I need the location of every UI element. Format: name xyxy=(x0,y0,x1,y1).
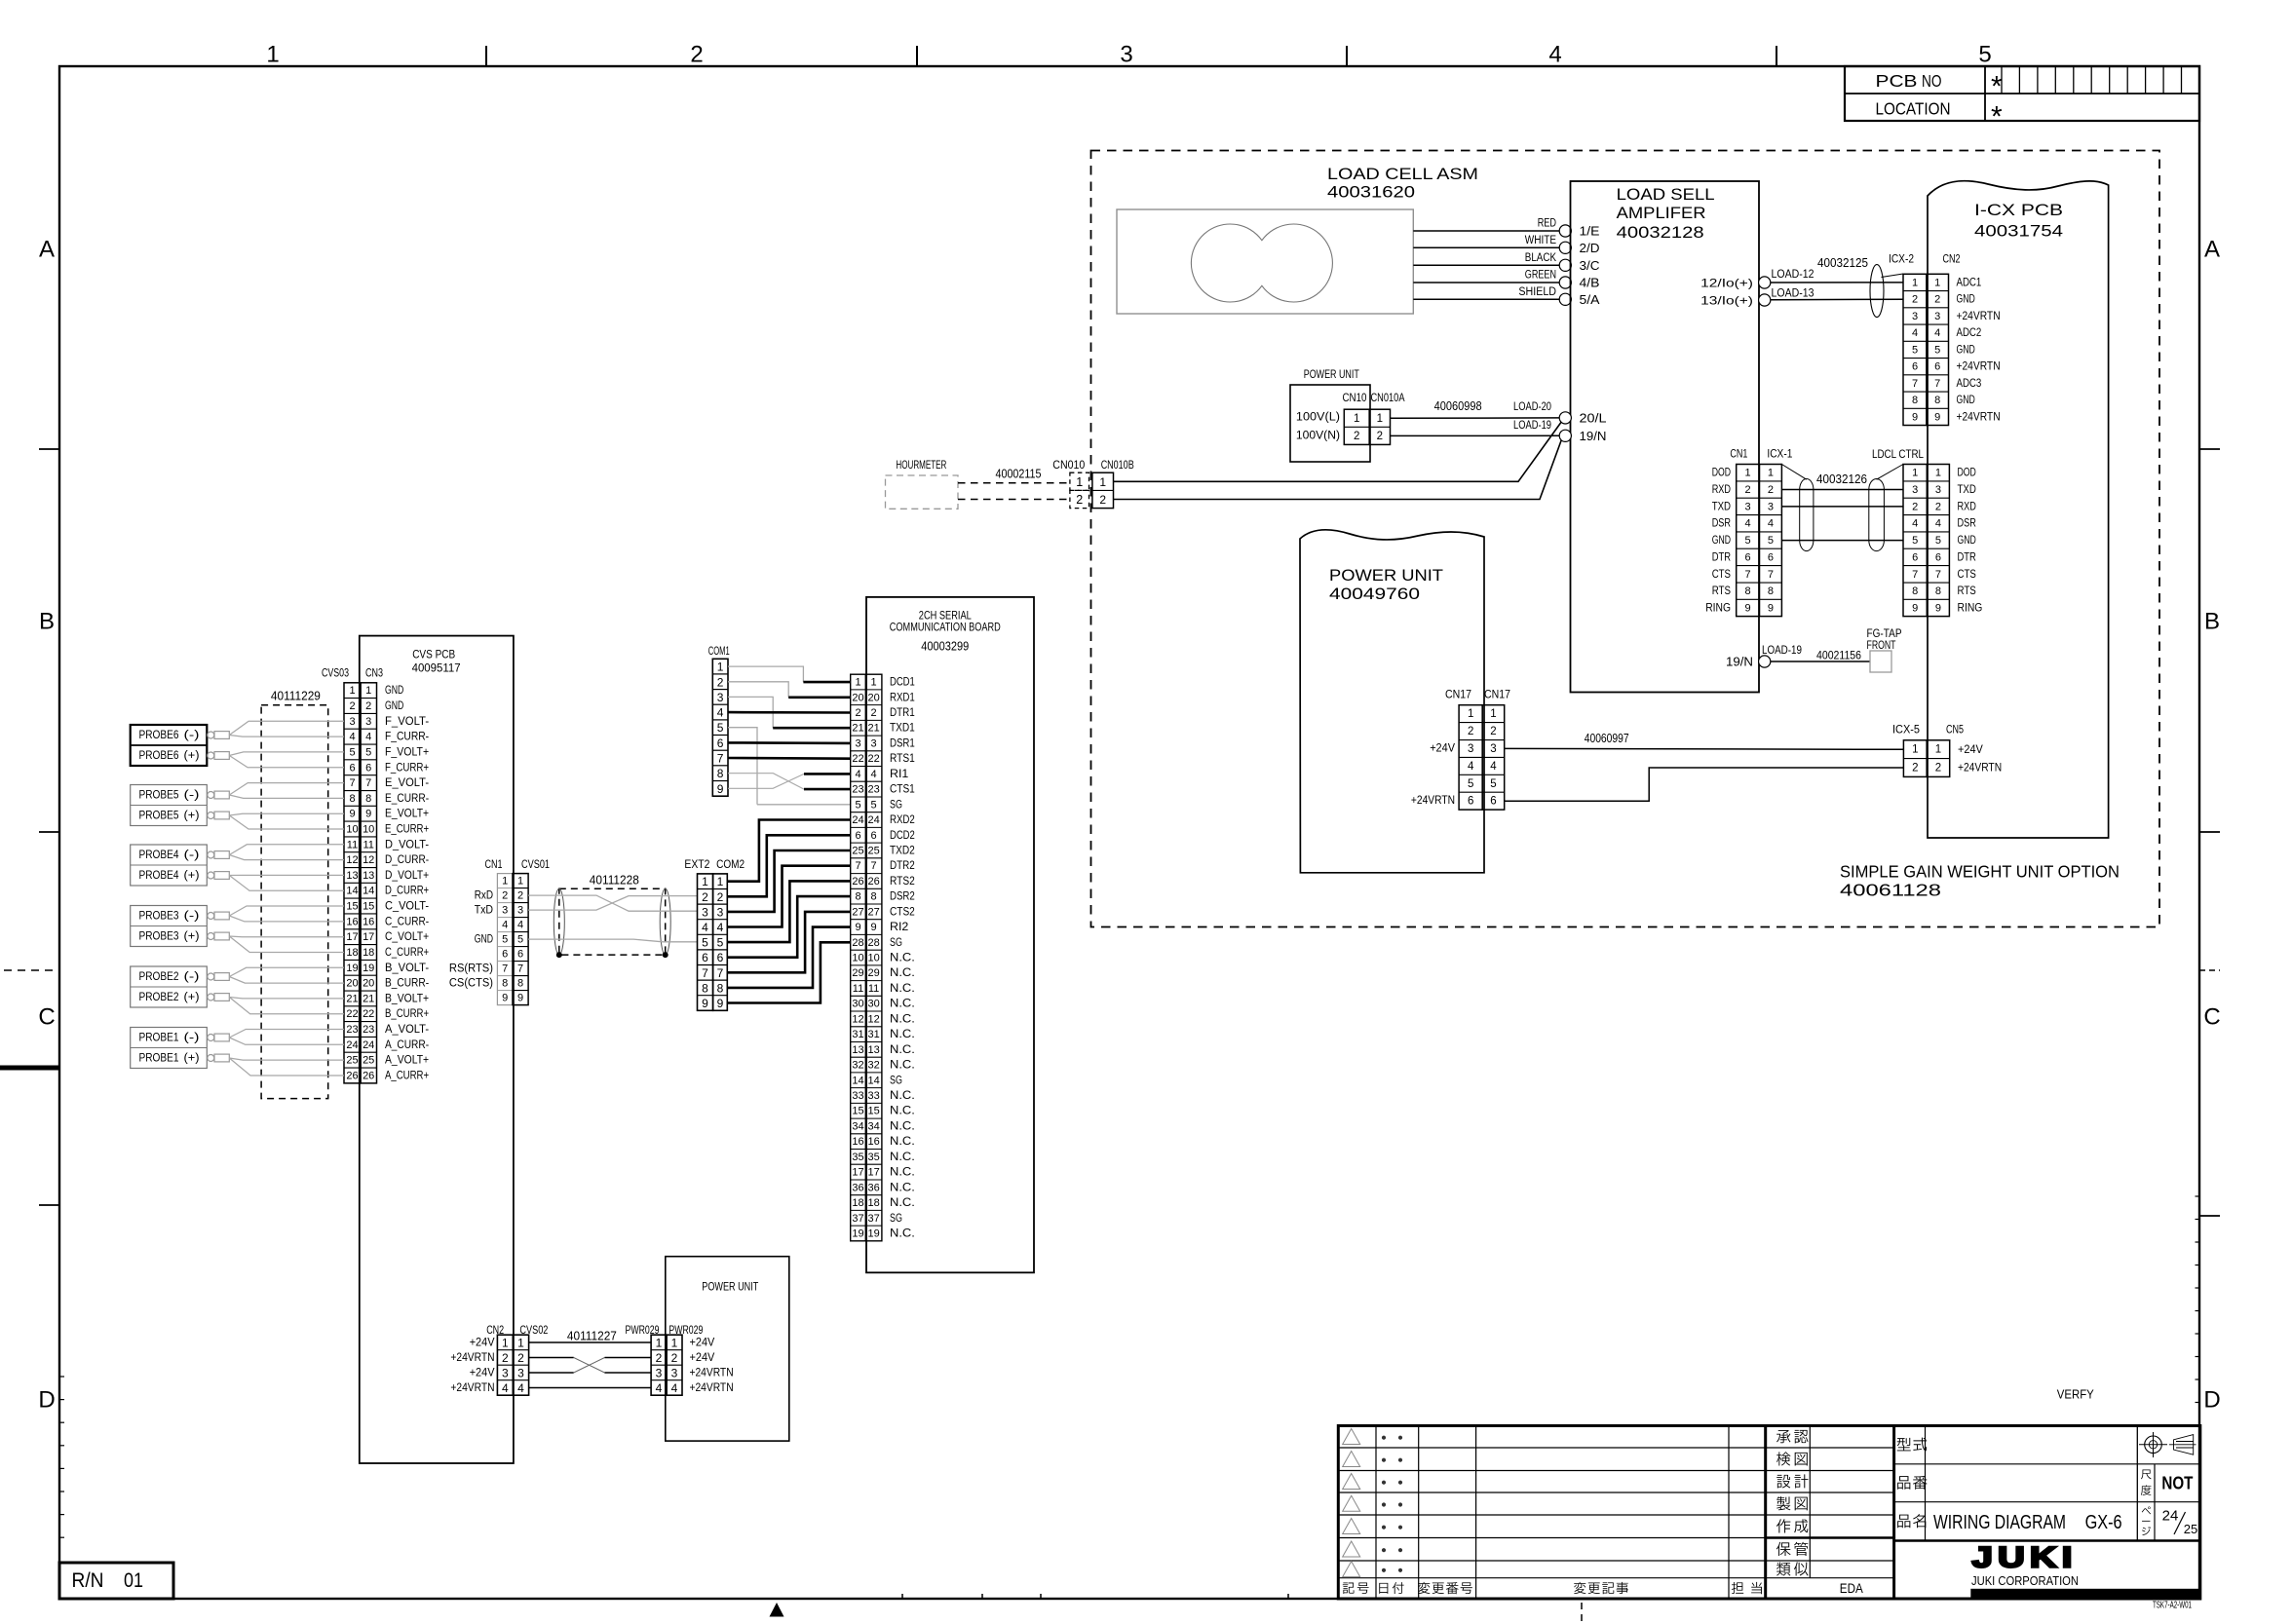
svg-text:2: 2 xyxy=(349,700,355,712)
column labels 1-5 xyxy=(266,42,1991,68)
approval labels kanji xyxy=(1776,1430,1809,1576)
svg-text:5: 5 xyxy=(365,746,371,758)
cable shield symbols xyxy=(1800,478,1814,550)
svg-text:3: 3 xyxy=(656,1367,663,1380)
svg-text:RTS: RTS xyxy=(1958,585,1977,597)
svg-text:N.C.: N.C. xyxy=(890,1136,915,1148)
svg-text:RXD2: RXD2 xyxy=(890,814,915,826)
svg-text:5: 5 xyxy=(1912,344,1918,356)
svg-text:B_CURR-: B_CURR- xyxy=(385,978,429,990)
svg-text:COMMUNICATION BOARD: COMMUNICATION BOARD xyxy=(890,620,1001,633)
svg-text:34: 34 xyxy=(852,1120,863,1132)
svg-text:CN2: CN2 xyxy=(1943,252,1961,266)
svg-text:NOT: NOT xyxy=(2161,1474,2193,1493)
svg-text:I-CX PCB: I-CX PCB xyxy=(1974,202,2063,219)
svg-text:3: 3 xyxy=(1490,743,1496,755)
load cell symbol xyxy=(1117,209,1413,314)
svg-text:PROBE4: PROBE4 xyxy=(139,870,180,882)
svg-text:+24VRTN: +24VRTN xyxy=(1411,795,1455,807)
svg-text:DSR2: DSR2 xyxy=(890,891,915,903)
svg-text:RXD1: RXD1 xyxy=(890,692,915,703)
svg-text:7: 7 xyxy=(1912,378,1918,390)
svg-text:5: 5 xyxy=(1912,535,1918,547)
svg-text:20: 20 xyxy=(363,978,374,990)
svg-text:LOAD-13: LOAD-13 xyxy=(1772,286,1814,300)
svg-text:24: 24 xyxy=(346,1039,358,1051)
FG-TAP FRONT terminal xyxy=(1870,651,1891,672)
svg-text:26: 26 xyxy=(852,876,863,888)
svg-text:3: 3 xyxy=(365,716,371,728)
svg-text:4: 4 xyxy=(855,769,860,780)
svg-text:F_CURR-: F_CURR- xyxy=(385,732,429,743)
svg-text:CN17: CN17 xyxy=(1484,688,1510,701)
row labels A-D right xyxy=(2203,237,2220,1414)
svg-text:4: 4 xyxy=(702,921,708,934)
svg-text:6: 6 xyxy=(702,951,708,964)
svg-text:VERFY: VERFY xyxy=(2057,1388,2095,1402)
svg-text:40021156: 40021156 xyxy=(1816,649,1861,662)
svg-text:40032126: 40032126 xyxy=(1816,472,1867,486)
svg-text:(+): (+) xyxy=(184,870,200,882)
svg-text:8: 8 xyxy=(365,793,371,805)
svg-text:6: 6 xyxy=(1912,551,1918,563)
svg-text:5: 5 xyxy=(855,799,860,811)
svg-text:36: 36 xyxy=(867,1182,879,1193)
svg-text:17: 17 xyxy=(346,931,358,943)
svg-text:TXD2: TXD2 xyxy=(890,846,915,857)
svg-text:22: 22 xyxy=(852,753,863,765)
svg-text:20/L: 20/L xyxy=(1580,411,1607,425)
svg-text:D_VOLT-: D_VOLT- xyxy=(385,839,429,850)
svg-text:SG: SG xyxy=(890,1213,902,1225)
svg-text:3/C: 3/C xyxy=(1580,259,1600,273)
svg-text:+24VRTN: +24VRTN xyxy=(690,1382,734,1394)
svg-text:D: D xyxy=(2203,1387,2220,1414)
svg-text:26: 26 xyxy=(346,1071,358,1082)
svg-text:2: 2 xyxy=(1912,501,1918,512)
svg-text:4: 4 xyxy=(517,1381,524,1395)
svg-text:40060997: 40060997 xyxy=(1585,732,1629,745)
svg-text:CVS01: CVS01 xyxy=(521,857,550,871)
svg-text:3: 3 xyxy=(1934,311,1940,322)
svg-text:RTS1: RTS1 xyxy=(890,753,915,765)
svg-text:7: 7 xyxy=(855,860,860,872)
svg-text:15: 15 xyxy=(852,1106,863,1117)
svg-text:POWER UNIT: POWER UNIT xyxy=(702,1280,759,1294)
svg-text:2: 2 xyxy=(1935,763,1941,774)
svg-text:12/Io(+): 12/Io(+) xyxy=(1700,277,1753,290)
svg-text:WIRING DIAGRAM: WIRING DIAGRAM xyxy=(1933,1511,2066,1533)
svg-text:6: 6 xyxy=(717,951,724,964)
svg-text:4: 4 xyxy=(517,920,523,931)
svg-text:N.C.: N.C. xyxy=(890,1060,915,1072)
svg-text:RI2: RI2 xyxy=(890,922,908,933)
svg-text:+24V: +24V xyxy=(690,1352,715,1364)
svg-text:10: 10 xyxy=(867,953,879,964)
svg-text:SG: SG xyxy=(890,1075,902,1086)
svg-text:35: 35 xyxy=(867,1152,879,1163)
svg-text:CN17: CN17 xyxy=(1445,688,1471,701)
svg-text:1: 1 xyxy=(1490,708,1496,720)
svg-text:1: 1 xyxy=(1935,468,1941,479)
svg-text:17: 17 xyxy=(867,1167,879,1179)
svg-text:2: 2 xyxy=(702,890,708,904)
svg-text:B_CURR+: B_CURR+ xyxy=(385,1008,429,1020)
svg-text:01: 01 xyxy=(124,1569,143,1592)
svg-text:GND: GND xyxy=(1957,395,1975,406)
svg-text:28: 28 xyxy=(852,937,863,949)
wires PROBE1 to CN3 xyxy=(229,1030,344,1076)
svg-text:+24V: +24V xyxy=(470,1338,495,1349)
svg-text:SHIELD: SHIELD xyxy=(1518,286,1556,298)
svg-text:8: 8 xyxy=(517,978,523,990)
wires COM2 to serial board xyxy=(727,820,850,1003)
svg-text:21: 21 xyxy=(852,723,863,735)
svg-text:7: 7 xyxy=(1934,378,1940,390)
svg-text:34: 34 xyxy=(867,1120,879,1132)
svg-text:A_CURR+: A_CURR+ xyxy=(385,1071,429,1082)
svg-text:ADC3: ADC3 xyxy=(1957,378,1982,390)
svg-text:18: 18 xyxy=(867,1197,879,1209)
bottom center triangle marker xyxy=(770,1603,784,1617)
svg-text:1: 1 xyxy=(1354,413,1359,425)
svg-text:6: 6 xyxy=(502,949,508,961)
board 2CH SERIAL COMMUNICATION BOARD 40003299 xyxy=(866,597,1034,1272)
svg-text:5: 5 xyxy=(1468,778,1473,790)
svg-text:PROBE4: PROBE4 xyxy=(139,850,180,861)
svg-text:PROBE1: PROBE1 xyxy=(139,1053,179,1065)
svg-text:22: 22 xyxy=(363,1008,374,1020)
svg-text:3: 3 xyxy=(517,905,523,917)
svg-text:N.C.: N.C. xyxy=(890,1182,915,1193)
page cell ページ 24/25 xyxy=(2142,1506,2197,1536)
svg-text:ICX-1: ICX-1 xyxy=(1767,447,1792,461)
svg-text:7: 7 xyxy=(365,777,371,789)
svg-text:11: 11 xyxy=(853,983,863,995)
svg-text:3: 3 xyxy=(502,905,508,917)
svg-text:+24V: +24V xyxy=(1958,744,1983,756)
wires PROBE5 to CN3 xyxy=(229,783,344,829)
svg-text:4: 4 xyxy=(717,921,724,934)
svg-text:RED: RED xyxy=(1538,218,1556,230)
title block heavy dividers xyxy=(1764,1426,1767,1600)
svg-text:19/N: 19/N xyxy=(1580,430,1607,443)
svg-text:1: 1 xyxy=(1768,468,1774,479)
svg-text:22: 22 xyxy=(346,1008,358,1020)
svg-text:5: 5 xyxy=(1745,535,1751,547)
svg-text:N.C.: N.C. xyxy=(890,1013,915,1025)
svg-text:RXD: RXD xyxy=(1958,501,1976,512)
svg-text:6: 6 xyxy=(365,762,371,774)
svg-text:ICX-2: ICX-2 xyxy=(1889,252,1914,266)
bottom row labels kanji xyxy=(1343,1582,1762,1594)
svg-text:B_VOLT-: B_VOLT- xyxy=(385,963,429,974)
svg-text:7: 7 xyxy=(1745,569,1751,581)
connector PROBE6 xyxy=(131,725,230,766)
svg-text:7: 7 xyxy=(702,966,708,980)
svg-text:COM2: COM2 xyxy=(716,857,745,871)
svg-text:1: 1 xyxy=(517,876,523,888)
svg-text:28: 28 xyxy=(867,937,879,949)
svg-text:19: 19 xyxy=(852,1228,863,1240)
svg-text:B: B xyxy=(2204,609,2220,635)
svg-text:4/B: 4/B xyxy=(1580,277,1600,290)
svg-text:7: 7 xyxy=(1912,569,1918,581)
svg-text:E_CURR-: E_CURR- xyxy=(385,793,429,805)
svg-text:1: 1 xyxy=(1468,708,1473,720)
svg-text:22: 22 xyxy=(867,753,879,765)
svg-text:4: 4 xyxy=(1745,518,1751,530)
svg-text:35: 35 xyxy=(852,1152,863,1163)
svg-text:2: 2 xyxy=(656,1351,663,1365)
svg-text:1: 1 xyxy=(266,42,279,68)
svg-text:ICX-5: ICX-5 xyxy=(1892,723,1920,736)
svg-text:N.C.: N.C. xyxy=(890,953,915,964)
svg-text:24: 24 xyxy=(2162,1508,2179,1525)
svg-text:(-): (-) xyxy=(184,790,200,802)
svg-text:2: 2 xyxy=(1912,294,1918,306)
svg-text:7: 7 xyxy=(349,777,355,789)
svg-text:8: 8 xyxy=(717,767,724,780)
svg-text:CN5: CN5 xyxy=(1946,723,1964,736)
svg-text:CVS03: CVS03 xyxy=(322,666,349,680)
svg-text:DTR1: DTR1 xyxy=(890,707,915,719)
wires PROBE2 to CN3 xyxy=(229,967,344,1013)
svg-text:6: 6 xyxy=(717,736,724,750)
dashed fold line below frame xyxy=(1581,1603,1583,1623)
svg-text:GX-6: GX-6 xyxy=(2085,1511,2122,1533)
svg-text:1: 1 xyxy=(365,685,371,697)
svg-text:25: 25 xyxy=(867,846,879,857)
svg-text:9: 9 xyxy=(1768,603,1774,615)
svg-text:1: 1 xyxy=(1745,468,1751,479)
svg-text:PROBE2: PROBE2 xyxy=(139,971,179,983)
wire color labels xyxy=(1518,218,1556,298)
svg-text:2: 2 xyxy=(717,890,724,904)
svg-text:32: 32 xyxy=(852,1060,863,1072)
svg-text:LOAD CELL ASM: LOAD CELL ASM xyxy=(1327,166,1478,183)
svg-text:+24VRTN: +24VRTN xyxy=(450,1352,494,1364)
svg-text:5: 5 xyxy=(1935,535,1941,547)
svg-text:CS(CTS): CS(CTS) xyxy=(449,978,493,990)
svg-text:13: 13 xyxy=(363,870,374,882)
svg-text:2: 2 xyxy=(502,890,508,902)
svg-text:25: 25 xyxy=(852,846,863,857)
approval table grid xyxy=(1766,1426,1894,1578)
svg-text:16: 16 xyxy=(867,1136,879,1148)
svg-text:19: 19 xyxy=(346,963,358,974)
svg-text:PROBE1: PROBE1 xyxy=(139,1033,179,1044)
svg-text:LOAD SELL: LOAD SELL xyxy=(1617,186,1715,204)
svg-text:C: C xyxy=(38,1004,55,1031)
svg-text:CTS2: CTS2 xyxy=(890,906,915,918)
svg-text:E_VOLT-: E_VOLT- xyxy=(385,777,429,789)
svg-text:EDA: EDA xyxy=(1840,1581,1863,1596)
svg-text:DTR: DTR xyxy=(1712,551,1731,563)
svg-text:2/D: 2/D xyxy=(1580,242,1600,255)
left edge fold marks xyxy=(0,970,59,1068)
svg-text:24: 24 xyxy=(363,1039,374,1051)
svg-text:21: 21 xyxy=(346,993,358,1004)
svg-text:R/N: R/N xyxy=(72,1569,104,1592)
svg-text:EXT2: EXT2 xyxy=(684,857,709,871)
svg-text:13: 13 xyxy=(346,870,358,882)
svg-text:A: A xyxy=(2204,237,2220,263)
wires CVS01 to EXT2 RxD TxD crossover xyxy=(528,895,697,911)
svg-text:SG: SG xyxy=(890,799,902,811)
svg-text:ADC2: ADC2 xyxy=(1957,327,1982,339)
svg-text:7: 7 xyxy=(1768,569,1774,581)
svg-text:1: 1 xyxy=(1934,277,1940,288)
svg-text:1: 1 xyxy=(502,1337,509,1350)
svg-text:6: 6 xyxy=(1490,796,1496,808)
svg-text:DSR: DSR xyxy=(1958,518,1976,530)
svg-text:4: 4 xyxy=(1468,761,1474,773)
svg-text:2: 2 xyxy=(717,675,724,689)
svg-text:40061128: 40061128 xyxy=(1840,881,1941,900)
svg-text:PROBE6: PROBE6 xyxy=(139,750,179,762)
svg-text:1: 1 xyxy=(517,1337,524,1350)
svg-text:C_CURR-: C_CURR- xyxy=(385,916,429,927)
svg-text:16: 16 xyxy=(363,916,374,927)
svg-text:GND: GND xyxy=(1957,294,1975,306)
box POWER UNIT bottom xyxy=(666,1257,789,1441)
svg-text:CN1: CN1 xyxy=(485,857,503,871)
svg-text:F_VOLT-: F_VOLT- xyxy=(385,716,429,728)
svg-text:N.C.: N.C. xyxy=(890,1120,915,1132)
svg-text:LOAD-20: LOAD-20 xyxy=(1513,399,1551,413)
svg-text:27: 27 xyxy=(867,906,879,918)
svg-text:DTR2: DTR2 xyxy=(890,860,915,872)
svg-text:A: A xyxy=(39,237,55,263)
svg-text:29: 29 xyxy=(867,967,879,979)
svg-text:CTS1: CTS1 xyxy=(890,784,915,796)
svg-text:B: B xyxy=(39,609,55,635)
svg-text:(+): (+) xyxy=(184,1053,200,1065)
svg-text:31: 31 xyxy=(852,1029,863,1040)
svg-text:RTS2: RTS2 xyxy=(890,876,915,888)
svg-text:15: 15 xyxy=(346,901,358,913)
svg-text:8: 8 xyxy=(1768,585,1774,597)
svg-text:4: 4 xyxy=(717,706,724,720)
svg-text:1: 1 xyxy=(1912,744,1918,756)
svg-text:23: 23 xyxy=(852,784,863,796)
svg-text:6: 6 xyxy=(1745,551,1751,563)
svg-text:6: 6 xyxy=(871,830,877,842)
svg-text:+24VRTN: +24VRTN xyxy=(1957,311,2001,322)
svg-text:2: 2 xyxy=(1468,726,1473,737)
svg-text:5: 5 xyxy=(1768,535,1774,547)
wires CN010B to amplifier xyxy=(1114,422,1562,481)
svg-text:20: 20 xyxy=(867,692,879,703)
connector PROBE3 xyxy=(131,906,230,947)
svg-text:9: 9 xyxy=(717,997,724,1010)
svg-text:9: 9 xyxy=(517,993,523,1004)
svg-text:33: 33 xyxy=(852,1090,863,1102)
svg-text:15: 15 xyxy=(363,901,374,913)
svg-text:12: 12 xyxy=(867,1013,879,1025)
svg-text:3: 3 xyxy=(1120,42,1132,68)
svg-text:*: * xyxy=(1991,101,2003,133)
connector PROBE5 xyxy=(131,785,230,826)
svg-text:25: 25 xyxy=(2184,1522,2197,1536)
left edge scale ruler ticks xyxy=(59,1377,64,1537)
svg-text:TxD: TxD xyxy=(475,905,493,917)
svg-text:LOAD-19: LOAD-19 xyxy=(1513,418,1551,432)
svg-text:40060998: 40060998 xyxy=(1434,399,1482,413)
svg-text:13: 13 xyxy=(867,1044,879,1056)
svg-text:LOAD-12: LOAD-12 xyxy=(1772,267,1814,281)
svg-text:D: D xyxy=(38,1387,55,1414)
svg-text:RXD: RXD xyxy=(1712,484,1731,496)
svg-text:PROBE3: PROBE3 xyxy=(139,931,179,943)
svg-text:14: 14 xyxy=(852,1075,863,1086)
svg-text:100V(N): 100V(N) xyxy=(1296,431,1340,442)
svg-text:23: 23 xyxy=(346,1024,358,1036)
svg-text:+24VRTN: +24VRTN xyxy=(1957,361,2001,373)
amplifier output terminals 12/Io 13/Io xyxy=(1759,277,1771,288)
svg-text:2: 2 xyxy=(1768,484,1774,496)
svg-text:26: 26 xyxy=(363,1071,374,1082)
svg-text:4: 4 xyxy=(1490,761,1497,773)
labels 型式 品番 品名 xyxy=(1897,1438,1928,1529)
svg-text:13/Io(+): 13/Io(+) xyxy=(1700,294,1753,308)
svg-text:11: 11 xyxy=(347,839,358,850)
svg-text:8: 8 xyxy=(1912,395,1918,406)
svg-text:D_VOLT+: D_VOLT+ xyxy=(385,870,429,882)
svg-text:GND: GND xyxy=(1712,535,1731,547)
svg-text:9: 9 xyxy=(702,997,708,1010)
revision box R/N 01 xyxy=(59,1563,173,1599)
svg-text:12: 12 xyxy=(363,854,374,866)
svg-text:9: 9 xyxy=(1934,411,1940,423)
svg-text:N.C.: N.C. xyxy=(890,1197,915,1209)
svg-text:7: 7 xyxy=(517,963,523,975)
svg-text:40032125: 40032125 xyxy=(1817,256,1868,270)
svg-text:POWER UNIT: POWER UNIT xyxy=(1329,567,1443,585)
svg-text:10: 10 xyxy=(852,953,863,964)
svg-text:2: 2 xyxy=(1377,431,1383,442)
svg-text:40111229: 40111229 xyxy=(271,690,321,703)
svg-text:19/N: 19/N xyxy=(1726,656,1753,669)
svg-text:2: 2 xyxy=(690,42,703,68)
svg-text:POWER UNIT: POWER UNIT xyxy=(1304,369,1359,381)
svg-text:6: 6 xyxy=(1934,361,1940,373)
svg-text:16: 16 xyxy=(852,1136,863,1148)
svg-text:24: 24 xyxy=(852,814,863,826)
svg-text:1: 1 xyxy=(1076,475,1083,489)
svg-text:7: 7 xyxy=(871,860,877,872)
svg-text:3: 3 xyxy=(717,905,724,919)
svg-text:1: 1 xyxy=(656,1337,663,1350)
row tick marks left edge xyxy=(39,449,59,1205)
svg-text:12: 12 xyxy=(852,1013,863,1025)
svg-text:(+): (+) xyxy=(184,811,200,822)
svg-text:N.C.: N.C. xyxy=(890,983,915,995)
svg-text:3: 3 xyxy=(349,716,355,728)
svg-text:N.C.: N.C. xyxy=(890,967,915,979)
svg-text:RTS: RTS xyxy=(1712,585,1732,597)
svg-text:FRONT: FRONT xyxy=(1867,638,1896,652)
svg-text:30: 30 xyxy=(852,999,863,1010)
amplifier terminals 20/L 19/N xyxy=(1559,412,1571,424)
svg-text:23: 23 xyxy=(867,784,879,796)
svg-text:SIMPLE GAIN WEIGHT UNIT OPTION: SIMPLE GAIN WEIGHT UNIT OPTION xyxy=(1840,862,2120,882)
wire 40060997 +24V xyxy=(1505,747,1904,750)
svg-text:(-): (-) xyxy=(184,1033,200,1044)
svg-text:DTR: DTR xyxy=(1958,551,1976,563)
svg-text:GND: GND xyxy=(475,934,493,946)
